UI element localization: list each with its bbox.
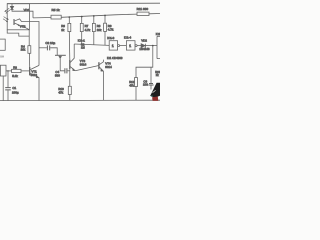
transistor VT1 [29,67,31,75]
wire VT2 emitter down to R4 [28,30,30,46]
svg-text:C1: C1 [12,86,16,90]
svg-text:1N4148: 1N4148 [139,47,150,51]
resistor R6 [68,17,70,23]
svg-text:9014: 9014 [80,62,87,66]
wire VD1 cathode to R5 line [12,10,33,18]
svg-text:IC2: IC2 [156,32,160,36]
left box A [0,39,5,50]
wire mic to ground rail [2,76,4,101]
node dot junction R9 top [104,15,106,17]
wire R8 bottom to gate line [93,32,95,45]
wire VT2 collector to VT1 collector [29,22,39,66]
resistor R7 [81,17,83,24]
level bar symbol [55,54,66,56]
svg-text:1M: 1M [81,45,85,49]
svg-text:1: 1 [129,44,131,48]
IC2 box [157,36,160,58]
resistor R10 [68,86,71,94]
svg-text:R13: R13 [155,70,160,74]
wire bottom ground rail [0,99,160,101]
svg-text:IC1-1: IC1-1 [78,38,85,42]
svg-text:VD2: VD2 [141,39,147,43]
wire R9 bottom to gate input [104,31,106,45]
node dot mic output junction [7,70,8,71]
phototransistor VT2 receive arrows [4,17,9,20]
LED VD1 emission arrows [5,8,9,12]
svg-text:IC1 CD4069: IC1 CD4069 [107,56,123,60]
svg-text:100µ: 100µ [12,91,19,95]
LED VD1 anode wire [11,4,13,7]
wire VT3 base chain down [69,69,71,86]
svg-text:5.1k: 5.1k [12,74,18,78]
wire C2 stub from VT1 collector [39,47,47,49]
node dot junction R7 top [81,16,83,18]
svg-text:4.7k: 4.7k [85,28,91,32]
wire gate2 to diode [137,45,141,47]
phototransistor VT2 [13,19,15,25]
wire gate input line [74,44,109,45]
svg-text:VT2: VT2 [20,24,26,28]
svg-text:IC1-3: IC1-3 [107,36,114,40]
resistor R3 [12,69,21,72]
svg-text:C2 10µ: C2 10µ [45,41,55,45]
wire sensor lower staircase to R4 [7,30,29,36]
capacitor C6 [148,84,153,86]
diode VD2 [141,44,145,48]
resistor R11 [137,12,149,15]
inverter gate IC1-4 [126,41,135,50]
svg-text:47k: 47k [58,91,63,95]
transistor VT4 [98,62,100,69]
wire R7 bottom to gate line [81,32,83,45]
svg-text:103: 103 [143,83,148,87]
wire main bias line with R5 [33,14,160,18]
wire R6 bottom to VT3 base [68,32,71,60]
wire trigger feed down and left [136,46,153,78]
svg-text:9014: 9014 [105,65,112,69]
microphone box B1 [0,65,6,76]
capacitor C1 [5,88,11,90]
svg-text:9013: 9013 [31,73,38,77]
node dot junction R6 top [68,16,70,18]
photo corner black blob [150,83,160,101]
capacitor C2 [47,45,49,50]
wire gate1 to gate2 [120,45,127,47]
svg-text:IC1-4: IC1-4 [124,35,131,39]
resistor R9 [104,16,106,24]
resistor R4 [28,46,31,54]
wire C1 branch [7,71,9,88]
svg-text:R3: R3 [13,66,17,70]
resistor R8 [93,16,95,23]
wire VT3 emitter to VT4 base [75,66,99,71]
svg-text:10k: 10k [21,47,26,51]
wire C2 to volume symbol [50,48,57,55]
resistor R12 [135,78,138,87]
wire top supply rail [7,2,160,5]
LED VD1 [10,6,13,9]
transistor VT3 [69,60,71,69]
svg-text:4.7k: 4.7k [108,28,114,32]
svg-text:R5 1k: R5 1k [52,8,61,12]
wire mic output [6,70,12,72]
svg-text:560: 560 [55,74,60,78]
svg-text:BM: BM [0,54,4,58]
capacitor C4 [65,68,67,73]
svg-text:VD1: VD1 [24,8,30,12]
resistor R5 [51,15,61,19]
svg-text:1: 1 [112,44,114,48]
svg-text:10k: 10k [97,28,102,32]
wire diode to IC2 [146,45,158,47]
svg-text:R11 680: R11 680 [137,7,149,11]
svg-text:47k: 47k [129,84,134,88]
node dot diode output [152,45,154,47]
node dot junction R8 top [93,15,95,17]
wire arrow to C4 [60,59,64,71]
inverter gate IC1-3 [109,41,117,50]
optocoupler sensor box U1 [7,4,29,30]
arrow under level bar [59,56,62,59]
wire C6 branch [150,67,152,83]
wire R3 to VT1 base [21,70,30,72]
wire R4 to VT1 base [28,53,30,67]
